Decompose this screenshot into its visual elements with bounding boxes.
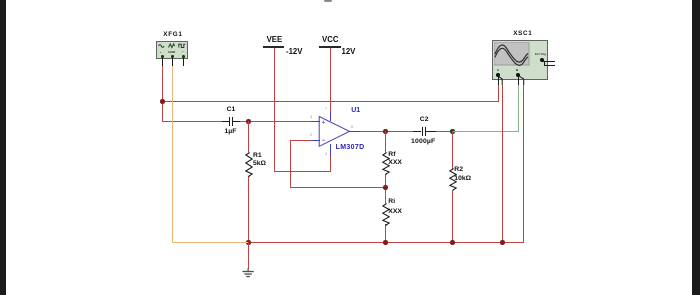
wire VEE to op-amp pin4 — [274, 171, 331, 172]
svg-text:+: + — [322, 120, 325, 126]
wire R1 bottom lead to ground bus — [248, 176, 249, 243]
wire ground stub — [248, 242, 249, 269]
VEE rail bar — [263, 46, 285, 48]
node ground bus / Ri junction — [383, 240, 387, 244]
label Ext Trig — [535, 53, 546, 56]
wire XFG1 to scope A horizontal — [162, 101, 499, 102]
XSC1 screen with waves — [494, 42, 530, 66]
label 5kOhm — [253, 161, 266, 168]
wire scope A- down to ground bus — [502, 85, 503, 243]
node XFG1/scopeA junction — [160, 99, 164, 103]
wire Rf top lead — [385, 131, 386, 152]
wire C1 row left segment — [162, 121, 222, 122]
resistor R1 zigzag — [245, 152, 253, 177]
label C2 — [420, 117, 429, 124]
wire green output to scope B horizontal — [453, 131, 519, 132]
wire XFG1 + output down — [162, 66, 163, 122]
label R2 — [454, 167, 463, 174]
resistor R2 zigzag — [449, 168, 457, 191]
node Rf/Ri/feedback junction — [383, 185, 387, 189]
XFG1 pin stubs — [162, 57, 163, 66]
node C2 / R2 / scope B junction — [450, 129, 454, 133]
VCC rail bar — [319, 46, 341, 48]
wire R2 bottom lead to ground bus — [452, 191, 453, 243]
wire orange bottom run to ground node — [172, 242, 248, 243]
node ground bus / scope A- junction — [500, 240, 504, 244]
right black screen border — [692, 0, 700, 295]
wire Rf bottom / Ri top lead — [385, 174, 386, 203]
op-amp U1 triangle — [318, 115, 352, 149]
terminal A dot — [496, 73, 500, 77]
wire op-amp inverting input feed — [290, 140, 311, 141]
label 12V — [342, 48, 356, 56]
resistor Ri zigzag — [382, 203, 390, 226]
label VCC — [322, 36, 338, 44]
pin 2 digit — [310, 133, 312, 137]
top edge smudge — [324, 0, 332, 2]
svg-text:−: − — [322, 138, 326, 144]
label Ri — [388, 199, 395, 206]
label Rf — [388, 152, 395, 159]
left black screen border — [0, 0, 6, 295]
label 1000uF — [411, 139, 435, 146]
wire op-amp pin4 lower lead — [330, 156, 331, 171]
scope B pin stubs — [518, 76, 519, 85]
XSC1 body — [492, 40, 548, 80]
label -12V — [286, 48, 302, 56]
label 1uF — [225, 129, 237, 136]
ground symbol — [242, 268, 255, 280]
op-amp V- stub — [330, 144, 331, 157]
node C1 / R1 junction — [246, 119, 250, 123]
label VEE — [267, 36, 283, 44]
ext trig pin lines — [543, 61, 555, 62]
resistor Rf zigzag — [382, 152, 390, 175]
op-amp - input stub — [311, 140, 320, 141]
capacitor C2 — [413, 131, 422, 132]
wire orange XFG1 COM down — [172, 66, 173, 243]
label XFG1 — [163, 32, 182, 38]
label C1 — [227, 107, 236, 114]
wire op-amp output to C2 — [360, 131, 414, 132]
pin 3 digit — [310, 115, 312, 119]
XFG1 pin pads — [161, 55, 164, 58]
label XXX (Rf) — [388, 160, 402, 167]
pin 7 digit — [325, 107, 327, 111]
XFG1 body — [156, 41, 188, 59]
wire C2 right segment — [436, 131, 453, 132]
label A — [497, 69, 499, 72]
op-amp + input stub — [311, 121, 320, 122]
wire VCC rail down — [330, 48, 331, 113]
label XSC1 — [513, 31, 532, 37]
wire ground bus — [248, 242, 524, 243]
wire C1 row right segment to op-amp + input — [240, 121, 311, 122]
XFG1 waveform icons — [158, 43, 188, 49]
label U1 — [351, 107, 360, 114]
label LM307D — [336, 144, 365, 151]
node output / Rf junction — [383, 129, 387, 133]
wire VEE rail down — [274, 48, 275, 172]
op-amp V+ stub — [330, 112, 331, 121]
wire R2 top lead — [452, 131, 453, 169]
label XXX (Ri) — [388, 209, 402, 216]
node ground bus / R2 junction — [450, 240, 454, 244]
wire R1 top lead — [248, 121, 249, 152]
wire scope A+ riser — [498, 85, 499, 102]
node ground bus / R1 / ground junction — [246, 240, 250, 244]
wire Ri bottom lead to ground bus — [385, 224, 386, 243]
pin 4 digit — [325, 152, 327, 156]
label R1 — [253, 153, 262, 160]
terminal B dot — [516, 73, 520, 77]
XFG1 terminal text + COM - — [160, 51, 162, 54]
pin 6 digit — [351, 125, 353, 129]
label 10kOhm — [454, 176, 471, 183]
scope A pin stubs — [498, 76, 499, 85]
wire scope B- down to ground bus — [523, 85, 524, 243]
wire feedback loop bottom to Rf/Ri node — [290, 187, 386, 188]
wire feedback loop vertical — [290, 140, 291, 188]
wire green scope B+ down — [518, 85, 519, 132]
ext trig terminal — [540, 58, 544, 62]
label B — [516, 69, 518, 72]
op-amp output stub — [349, 131, 360, 132]
capacitor C1 — [222, 121, 229, 122]
